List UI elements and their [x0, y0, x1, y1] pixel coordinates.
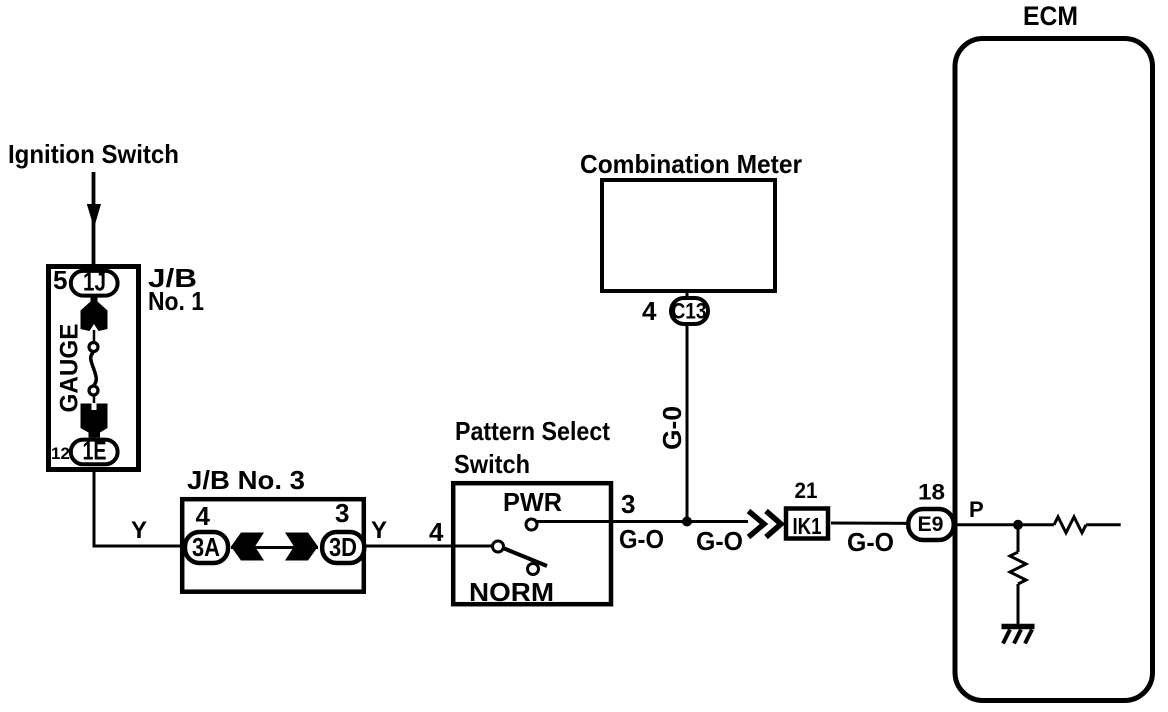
connector 1E — [71, 440, 118, 465]
svg-text:IK1: IK1 — [793, 513, 822, 539]
ECM box — [955, 39, 1153, 701]
svg-text:4: 4 — [429, 517, 444, 547]
svg-text:1E: 1E — [83, 436, 107, 466]
svg-text:Y: Y — [131, 517, 147, 544]
arrowhead on ignition switch wire — [87, 204, 101, 228]
connector 3D — [322, 532, 364, 563]
combination meter box — [602, 180, 775, 291]
left-pointing arrow in J/B No.3 — [231, 533, 264, 561]
svg-text:G-O: G-O — [847, 527, 894, 557]
svg-text:3: 3 — [335, 498, 349, 528]
connector 1J — [71, 271, 118, 296]
svg-text:12: 12 — [51, 444, 70, 463]
wire resistor to ground — [1017, 584, 1020, 624]
junction block J/B No. 1 box — [49, 267, 139, 470]
wire junction down to resistor — [1017, 525, 1020, 552]
svg-text:1J: 1J — [83, 267, 106, 297]
svg-text:Pattern Select: Pattern Select — [455, 416, 610, 446]
svg-text:Y: Y — [371, 517, 387, 544]
svg-text:G-O: G-O — [619, 524, 664, 554]
wire IK1 to E9, colour G-O — [831, 522, 931, 526]
wire after resistor — [1086, 523, 1121, 526]
resistor horizontal inside ECM — [1054, 517, 1086, 533]
wire between 3A and 3D — [231, 546, 318, 549]
connector 3A — [185, 532, 228, 563]
wire 3D to Pattern Select Switch, colour Y — [366, 545, 493, 548]
svg-text:18: 18 — [918, 480, 945, 505]
svg-text:Ignition Switch: Ignition Switch — [8, 139, 179, 169]
switch lever — [503, 548, 547, 566]
fuse GAUGE top terminal — [89, 343, 98, 352]
junction block J/B No. 3 box — [182, 499, 364, 592]
switch PWR contact — [526, 519, 537, 530]
ground symbol inside ECM — [1002, 624, 1035, 630]
wire 1E to J/B No.3, colour Y — [94, 467, 184, 546]
svg-text:P: P — [969, 497, 984, 522]
connector IK1 — [786, 509, 828, 539]
svg-text:NORM: NORM — [469, 577, 554, 607]
wire from ignition switch down to J/B No.1 — [92, 172, 96, 270]
switch NORM contact — [528, 564, 539, 575]
wire stem above 1E — [93, 432, 96, 440]
svg-text:21: 21 — [795, 478, 818, 503]
connector C13 — [671, 298, 708, 324]
svg-text:G-O: G-O — [696, 526, 743, 556]
junction of meter wire and switch wire — [682, 517, 692, 527]
svg-text:G-0: G-0 — [657, 406, 687, 450]
pattern select switch box — [453, 483, 611, 604]
svg-text:Switch: Switch — [454, 449, 530, 479]
wire stem below fuse — [93, 395, 96, 403]
svg-text:No. 1: No. 1 — [148, 286, 204, 316]
right-pointing arrow in J/B No.3 — [285, 533, 318, 561]
svg-text:ECM: ECM — [1023, 1, 1078, 31]
connector E9 — [908, 509, 954, 540]
svg-text:GAUGE: GAUGE — [56, 324, 84, 413]
svg-text:3A: 3A — [192, 532, 220, 562]
wire PWR contact to junction, colour G-O — [537, 520, 688, 523]
svg-text:PWR: PWR — [503, 487, 562, 517]
wire stem above fuse — [93, 330, 96, 342]
junction inside ECM — [1013, 520, 1023, 530]
fuse GAUGE element — [91, 353, 96, 386]
svg-text:5: 5 — [53, 265, 67, 295]
svg-text:C13: C13 — [672, 299, 707, 324]
connector arrows into IK1 — [749, 511, 765, 537]
svg-text:Combination Meter: Combination Meter — [580, 149, 802, 179]
svg-text:4: 4 — [196, 501, 211, 531]
fuse lower arrow — [81, 404, 108, 438]
fuse GAUGE bottom terminal — [89, 386, 98, 395]
svg-text:E9: E9 — [918, 512, 944, 536]
svg-text:3D: 3D — [329, 532, 357, 562]
svg-text:3: 3 — [621, 489, 635, 519]
wire junction to resistor — [1018, 523, 1054, 526]
resistor vertical inside ECM — [1010, 552, 1026, 584]
svg-text:J/B No. 3: J/B No. 3 — [187, 465, 305, 495]
wire junction to connector IK1, colour G-O — [687, 520, 748, 523]
wire C13 to junction, colour G-0 — [686, 291, 689, 522]
wire E9 into ECM to junction — [956, 523, 1018, 526]
switch common terminal — [493, 541, 504, 552]
fuse upper arrow — [81, 298, 108, 332]
svg-text:4: 4 — [642, 296, 657, 326]
